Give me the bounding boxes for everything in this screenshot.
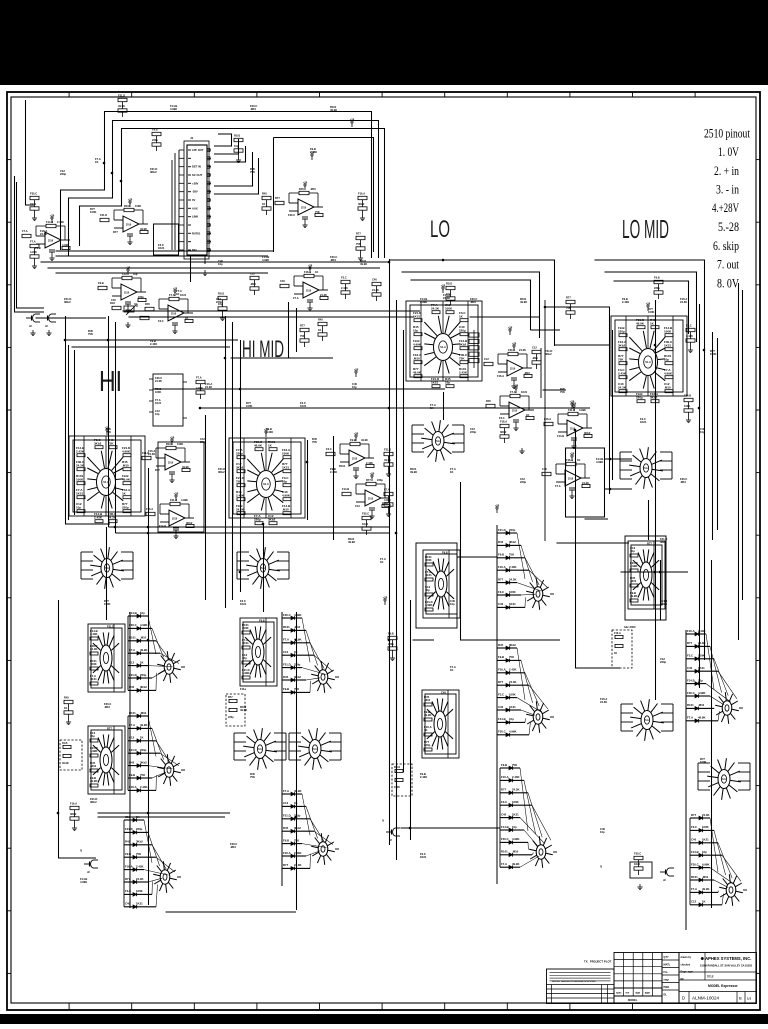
svg-text:10p: 10p (352, 385, 357, 389)
svg-text:.M10: .M10 (104, 705, 110, 709)
svg-text:2510: 2510 (352, 459, 358, 461)
svg-text:B: B (739, 996, 742, 1001)
svg-text:10p: 10p (133, 272, 138, 276)
svg-text:F14.B: F14.B (687, 678, 695, 682)
svg-text:1K: 1K (450, 668, 453, 672)
svg-text:AUX: AUX (192, 206, 198, 210)
svg-text:3Kb2: 3Kb2 (94, 441, 102, 445)
svg-text:7. out: 7. out (717, 258, 739, 272)
svg-text:D: D (682, 996, 685, 1001)
svg-text:+28: +28 (354, 368, 359, 372)
svg-text:3Kb2: 3Kb2 (140, 685, 147, 689)
svg-text:49.9K: 49.9K (630, 594, 637, 598)
svg-text:3Kb2: 3Kb2 (509, 540, 516, 544)
svg-text:1K21: 1K21 (90, 677, 97, 681)
svg-text:10p: 10p (90, 734, 95, 738)
svg-text:1K: 1K (430, 406, 433, 410)
svg-text:.M10: .M10 (90, 764, 97, 768)
svg-text:F3.C: F3.C (501, 800, 507, 804)
svg-text:C40: C40 (501, 812, 507, 816)
svg-text:4.99K: 4.99K (384, 498, 391, 502)
svg-text:Fin.: Fin. (664, 971, 669, 974)
svg-text:1K: 1K (526, 413, 529, 417)
svg-text:C12: C12 (250, 272, 255, 276)
svg-text:24.3K: 24.3K (372, 288, 379, 292)
svg-text:R45: R45 (283, 675, 289, 679)
svg-text:24.3K: 24.3K (509, 577, 516, 581)
svg-text:R77: R77 (647, 541, 652, 545)
svg-text:1K: 1K (315, 270, 318, 274)
svg-text:2510: 2510 (512, 411, 518, 413)
svg-text:75K: 75K (250, 170, 255, 174)
svg-text:100K: 100K (76, 477, 84, 481)
svg-text:1K: 1K (450, 470, 453, 474)
svg-text:2510: 2510 (368, 499, 374, 501)
svg-text:R45: R45 (318, 318, 323, 322)
svg-text:220p: 220p (660, 660, 666, 664)
svg-text:2.43K: 2.43K (57, 220, 64, 224)
svg-text:F14.B: F14.B (159, 524, 166, 528)
svg-text:3Kb2: 3Kb2 (186, 521, 193, 525)
svg-text:100K: 100K (648, 310, 654, 314)
svg-text:2.43K: 2.43K (420, 775, 427, 779)
svg-text:spec: spec (616, 992, 622, 995)
svg-text:24.3K: 24.3K (519, 348, 526, 352)
svg-text:2.43K: 2.43K (294, 851, 301, 855)
svg-text:LINK: LINK (192, 215, 198, 219)
svg-text:F21.D: F21.D (125, 827, 133, 831)
svg-text:R77: R77 (501, 788, 507, 792)
svg-text:24.3K: 24.3K (443, 296, 450, 300)
svg-text:4.99K: 4.99K (509, 730, 516, 734)
svg-text:1K: 1K (185, 316, 188, 320)
svg-text:Dsgn appr: Dsgn appr (681, 971, 694, 974)
svg-text:F7.A: F7.A (501, 862, 507, 866)
svg-text:10p: 10p (700, 430, 705, 434)
svg-text:10p: 10p (242, 656, 247, 660)
svg-text:1K21: 1K21 (640, 420, 647, 424)
svg-text:RE: RE (681, 978, 685, 981)
svg-text:R101: R101 (687, 703, 694, 707)
svg-text:1K21: 1K21 (698, 666, 705, 670)
svg-text:11068 RANDALL ST. SUN VALLEY C: 11068 RANDALL ST. SUN VALLEY CA 91352 (700, 965, 753, 968)
svg-text:4.99K: 4.99K (30, 250, 37, 254)
svg-text:100K: 100K (104, 602, 110, 606)
svg-text:2.43K: 2.43K (90, 632, 97, 636)
svg-text:REL: REL (192, 248, 198, 252)
svg-text:3Kb2: 3Kb2 (268, 517, 276, 521)
svg-text:F14.B: F14.B (342, 487, 349, 491)
svg-text:2.43K: 2.43K (512, 775, 519, 779)
svg-text:1K21: 1K21 (431, 380, 439, 384)
svg-text:C12: C12 (355, 504, 360, 508)
svg-text:1K: 1K (262, 202, 265, 206)
svg-text:100K: 100K (664, 329, 672, 333)
svg-text:F9.B: F9.B (259, 618, 265, 622)
svg-text:2510: 2510 (171, 314, 177, 316)
svg-text:49.9K: 49.9K (348, 540, 355, 544)
svg-text:.M10: .M10 (680, 480, 686, 484)
svg-text:.M10: .M10 (470, 300, 476, 304)
svg-text:+28: +28 (383, 596, 388, 600)
svg-text:24.3K: 24.3K (40, 232, 47, 236)
svg-text:R45: R45 (498, 540, 504, 544)
svg-text:49.9K: 49.9K (410, 470, 417, 474)
svg-text:4.99K: 4.99K (140, 623, 147, 627)
svg-text:.M10: .M10 (532, 356, 538, 360)
svg-text:3Kb2: 3Kb2 (140, 760, 147, 764)
svg-text:3Kb2: 3Kb2 (218, 470, 225, 474)
svg-text:F3.C: F3.C (499, 416, 505, 420)
svg-text:24.3K: 24.3K (90, 647, 97, 651)
svg-text:3Kb2: 3Kb2 (660, 540, 667, 544)
svg-text:F7.A: F7.A (196, 376, 202, 380)
svg-text:R77: R77 (300, 324, 305, 328)
svg-text:TITLE: TITLE (707, 976, 714, 979)
svg-text:24.3K: 24.3K (148, 452, 155, 456)
svg-text:220p: 220p (152, 138, 158, 142)
svg-text:R101: R101 (234, 134, 241, 138)
svg-text:R77: R77 (107, 726, 112, 730)
svg-text:F16.A: F16.A (358, 192, 365, 196)
svg-text:F9.B: F9.B (283, 687, 289, 691)
svg-text:appr: appr (645, 992, 650, 995)
svg-text:F7.A: F7.A (169, 293, 175, 297)
svg-text:3Kb2: 3Kb2 (64, 300, 71, 304)
svg-text:F14.B: F14.B (501, 825, 509, 829)
svg-text:S-b: S-b (258, 749, 262, 751)
svg-text:1K: 1K (577, 458, 580, 462)
svg-text:24.3K: 24.3K (236, 507, 245, 511)
svg-text:49.9K: 49.9K (90, 779, 97, 783)
svg-text:75K: 75K (108, 441, 114, 445)
svg-text:F9.B: F9.B (283, 838, 289, 842)
svg-text:F16.A: F16.A (70, 802, 77, 806)
svg-text:1K21: 1K21 (420, 855, 427, 859)
svg-text:220p: 220p (636, 395, 643, 399)
svg-text:0V: 0V (192, 198, 195, 202)
svg-text:1K: 1K (95, 160, 98, 164)
svg-text:49.9K: 49.9K (140, 648, 147, 652)
svg-text:.M10: .M10 (282, 507, 289, 511)
svg-text:75K: 75K (560, 390, 565, 394)
svg-text:DET IN: DET IN (192, 165, 201, 169)
svg-text:1K21: 1K21 (664, 343, 672, 347)
svg-text:100K: 100K (135, 204, 141, 208)
svg-text:QTY: QTY (664, 956, 669, 959)
svg-text:2.43K: 2.43K (94, 515, 103, 519)
svg-text:49.9K: 49.9K (254, 443, 263, 447)
svg-text:4.99K: 4.99K (294, 613, 301, 617)
svg-text:C40: C40 (498, 602, 504, 606)
svg-text:C40: C40 (498, 705, 504, 709)
svg-text:S1-A: S1-A (645, 361, 651, 364)
svg-text:1K21: 1K21 (155, 401, 162, 405)
svg-text:4.99K: 4.99K (196, 386, 203, 390)
svg-text:100K: 100K (282, 451, 290, 455)
svg-text:3Kb2: 3Kb2 (236, 465, 244, 469)
svg-text:R101: R101 (691, 875, 698, 879)
svg-text:1K21: 1K21 (509, 602, 516, 606)
svg-text:F30.C: F30.C (687, 691, 695, 695)
svg-text:1K21: 1K21 (30, 202, 37, 206)
svg-text:2.43K: 2.43K (330, 470, 337, 474)
svg-text:F30.C: F30.C (498, 730, 506, 734)
svg-text:100K: 100K (242, 626, 249, 630)
svg-text:NOTES: UNLESS OTHERWISE SPECIF: NOTES: UNLESS OTHERWISE SPECIFIED (552, 981, 596, 983)
svg-text:+28: +28 (354, 432, 359, 436)
svg-text:2510: 2510 (126, 225, 132, 227)
svg-text:220p: 220p (654, 286, 660, 290)
svg-text:F16.A: F16.A (125, 864, 133, 868)
svg-text:1K21: 1K21 (300, 404, 307, 408)
svg-text:49.9K: 49.9K (424, 713, 431, 717)
svg-text:LPF OUT: LPF OUT (192, 148, 204, 152)
svg-text:100K: 100K (90, 210, 96, 214)
svg-text:F3.C: F3.C (341, 276, 347, 280)
svg-text:2510: 2510 (301, 208, 307, 210)
svg-text:F9.B: F9.B (152, 128, 158, 132)
svg-text:F21.D: F21.D (107, 624, 114, 628)
svg-text:2.43K: 2.43K (509, 668, 516, 672)
svg-text:10p: 10p (413, 328, 418, 332)
svg-text:2.43K: 2.43K (236, 493, 245, 497)
svg-text:4.99K: 4.99K (181, 498, 188, 502)
svg-text:C40: C40 (691, 838, 697, 842)
svg-text:4.99K: 4.99K (425, 603, 432, 607)
svg-text:F16.A: F16.A (687, 629, 695, 633)
svg-text:MATL: MATL (664, 964, 671, 967)
svg-text:+28: +28 (495, 504, 500, 508)
svg-text:2.43K: 2.43K (618, 371, 627, 375)
svg-text:R45: R45 (498, 643, 504, 647)
svg-text:5.-28: 5.-28 (718, 220, 739, 234)
svg-text:24.3K: 24.3K (702, 813, 709, 817)
svg-text:100K: 100K (700, 760, 706, 764)
svg-text:24.3K: 24.3K (431, 306, 440, 310)
svg-text:F14.B: F14.B (498, 717, 506, 721)
svg-text:+28: +28 (50, 214, 55, 218)
svg-text:RATIO: RATIO (192, 231, 200, 235)
svg-text:3Kb2: 3Kb2 (545, 352, 552, 356)
svg-text:+28: +28 (170, 436, 175, 440)
svg-text:R77: R77 (498, 577, 504, 581)
svg-text:✺ APHEX SYSTEMS, INC.: ✺ APHEX SYSTEMS, INC. (701, 956, 752, 961)
svg-text:4.99K: 4.99K (242, 671, 249, 675)
svg-text:F11a: F11a (240, 687, 246, 691)
svg-text:+28: +28 (303, 181, 308, 185)
svg-text:3Kb2: 3Kb2 (294, 826, 301, 830)
svg-text:3Kb2: 3Kb2 (509, 643, 516, 647)
svg-text:49.9K: 49.9K (413, 370, 422, 374)
svg-text:F30.C: F30.C (691, 862, 699, 866)
svg-text:F7.A: F7.A (555, 484, 561, 488)
svg-text:1K21: 1K21 (509, 705, 516, 709)
svg-text:R77: R77 (566, 296, 571, 300)
svg-text:49.9K: 49.9K (520, 300, 527, 304)
svg-text:S-b: S-b (261, 568, 265, 570)
svg-text:F21.D: F21.D (100, 213, 107, 217)
svg-text:R45: R45 (262, 192, 267, 196)
svg-text:2. + in: 2. + in (714, 164, 740, 178)
svg-text:sign: sign (635, 992, 640, 995)
svg-text:F7.A: F7.A (283, 789, 289, 793)
svg-text:F9.B: F9.B (62, 742, 68, 745)
svg-text:1. 0V: 1. 0V (718, 145, 739, 159)
svg-text:2.43K: 2.43K (341, 286, 348, 290)
svg-text:1K: 1K (614, 652, 617, 655)
svg-text:1K21: 1K21 (136, 902, 143, 906)
svg-text:8. 0V: 8. 0V (717, 277, 739, 291)
svg-text:+28: +28 (441, 284, 446, 288)
svg-text:1K21: 1K21 (425, 573, 432, 577)
svg-text:3Kb2: 3Kb2 (358, 202, 365, 206)
svg-text:F16.A: F16.A (500, 420, 507, 424)
svg-text:HI MID: HI MID (242, 336, 284, 363)
svg-text:24.3K: 24.3K (205, 385, 212, 389)
svg-text:24.3K: 24.3K (294, 863, 301, 867)
svg-text:R77: R77 (228, 696, 233, 699)
svg-text:49.9K: 49.9K (361, 438, 368, 442)
svg-text:F16.A: F16.A (498, 565, 506, 569)
svg-text:S-b: S-b (105, 568, 109, 570)
svg-text:10p: 10p (218, 262, 223, 266)
svg-text:F30.C: F30.C (362, 512, 369, 516)
svg-text:6. skip: 6. skip (713, 239, 739, 253)
svg-text:49.9K: 49.9K (360, 262, 367, 266)
svg-text:1/1: 1/1 (747, 997, 752, 1001)
svg-text:10p: 10p (450, 602, 455, 606)
svg-text:3Kb2: 3Kb2 (70, 812, 77, 816)
svg-text:100K: 100K (425, 558, 432, 562)
svg-text:R18: R18 (110, 301, 115, 305)
svg-text:-28V: -28V (192, 190, 198, 194)
svg-text:F30.C: F30.C (30, 192, 37, 196)
svg-text:75K: 75K (250, 775, 255, 779)
svg-text:4.99K: 4.99K (262, 258, 269, 262)
svg-text:75K: 75K (315, 210, 320, 214)
svg-text:+28V: +28V (192, 181, 199, 185)
svg-text:10p: 10p (630, 549, 635, 553)
svg-text:F14.B: F14.B (684, 394, 691, 398)
svg-text:+28: +28 (126, 266, 131, 270)
svg-text:24.3K: 24.3K (618, 385, 627, 389)
svg-text:.M10: .M10 (630, 579, 637, 583)
svg-text:.M10: .M10 (330, 258, 336, 262)
svg-text:.M10: .M10 (524, 371, 530, 375)
svg-text:+28: +28 (508, 326, 513, 330)
svg-text:1K21: 1K21 (521, 390, 528, 394)
svg-text:2.43K: 2.43K (622, 300, 629, 304)
svg-text:F21.D: F21.D (283, 814, 291, 818)
svg-text:+28: +28 (308, 264, 313, 268)
svg-text:R45: R45 (64, 696, 69, 700)
svg-text:R101: R101 (394, 766, 401, 769)
svg-text:R77: R77 (691, 813, 697, 817)
svg-text:220p: 220p (520, 480, 526, 484)
svg-text:S1-A: S1-A (263, 483, 269, 486)
svg-text:F7.A: F7.A (293, 296, 299, 300)
svg-text:10p: 10p (76, 505, 81, 509)
svg-text:49.9K: 49.9K (512, 862, 519, 866)
svg-text:F3.C: F3.C (326, 447, 332, 451)
svg-text:.M10: .M10 (424, 698, 431, 702)
svg-text:hdc 2000: hdc 2000 (624, 625, 636, 629)
svg-text:.M10: .M10 (250, 107, 256, 111)
svg-text:3Kb2: 3Kb2 (294, 675, 301, 679)
svg-text:F21.D: F21.D (283, 662, 291, 666)
svg-text:F21.D: F21.D (384, 448, 391, 452)
svg-text:F9.B: F9.B (350, 438, 356, 442)
svg-text:75K: 75K (312, 440, 317, 444)
svg-text:4.99K: 4.99K (62, 243, 69, 247)
svg-text:ALNM-10024: ALNM-10024 (692, 996, 720, 1001)
svg-text:220p: 220p (459, 328, 466, 332)
svg-text:75K: 75K (236, 479, 242, 483)
svg-text:C40: C40 (542, 467, 547, 471)
svg-text:engr: engr (664, 979, 669, 982)
svg-text:1K21: 1K21 (634, 862, 641, 866)
svg-text:75K: 75K (88, 332, 93, 336)
svg-text:3Kb2: 3Kb2 (618, 343, 626, 347)
svg-text:1K: 1K (64, 706, 67, 710)
svg-text:C40: C40 (280, 279, 285, 283)
svg-text:C12: C12 (532, 346, 537, 350)
svg-text:.M10: .M10 (664, 385, 671, 389)
svg-text:100K: 100K (177, 442, 183, 446)
svg-text:24.3K: 24.3K (76, 463, 85, 467)
svg-text:49.9K: 49.9K (702, 887, 709, 891)
svg-text:2.43K: 2.43K (459, 370, 468, 374)
svg-text:.M10: .M10 (413, 356, 420, 360)
svg-text:R77: R77 (498, 680, 504, 684)
svg-text:+28: +28 (646, 302, 651, 306)
svg-text:F16.A: F16.A (146, 507, 153, 511)
svg-text:R77: R77 (113, 230, 118, 234)
svg-text:220p: 220p (228, 716, 234, 719)
svg-text:MODEL Expressor: MODEL Expressor (708, 984, 738, 988)
svg-text:+28: +28 (570, 452, 575, 456)
svg-text:R101: R101 (446, 282, 453, 286)
svg-text:220p: 220p (254, 517, 261, 521)
svg-text:220p: 220p (424, 743, 431, 747)
svg-text:4.99K: 4.99K (90, 749, 97, 753)
svg-text:2.43K: 2.43K (366, 461, 373, 465)
svg-text:220p: 220p (236, 451, 243, 455)
svg-text:4.99K: 4.99K (170, 107, 177, 111)
svg-text:4.+28V: 4.+28V (712, 201, 739, 215)
svg-text:2510: 2510 (172, 519, 178, 521)
svg-text:R101: R101 (501, 850, 508, 854)
svg-text:24.3K: 24.3K (155, 379, 162, 383)
svg-text:2510: 2510 (48, 241, 54, 243)
svg-text:R101: R101 (283, 625, 290, 629)
svg-text:1K21: 1K21 (702, 838, 709, 842)
svg-text:1K21: 1K21 (282, 465, 290, 469)
svg-text:4.99K: 4.99K (420, 300, 427, 304)
svg-text:+28: +28 (570, 400, 575, 404)
svg-text:220p: 220p (470, 430, 476, 434)
svg-text:R77: R77 (155, 468, 160, 472)
svg-text:drawn by: drawn by (681, 956, 692, 959)
svg-text:49.9K: 49.9K (294, 789, 301, 793)
svg-text:F3.C: F3.C (158, 319, 164, 323)
svg-text:R45: R45 (283, 826, 289, 830)
svg-text:4.99K: 4.99K (698, 691, 705, 695)
svg-text:49.9K: 49.9K (384, 458, 391, 462)
svg-text:100K: 100K (445, 306, 453, 310)
svg-text:F3.C: F3.C (498, 590, 504, 594)
